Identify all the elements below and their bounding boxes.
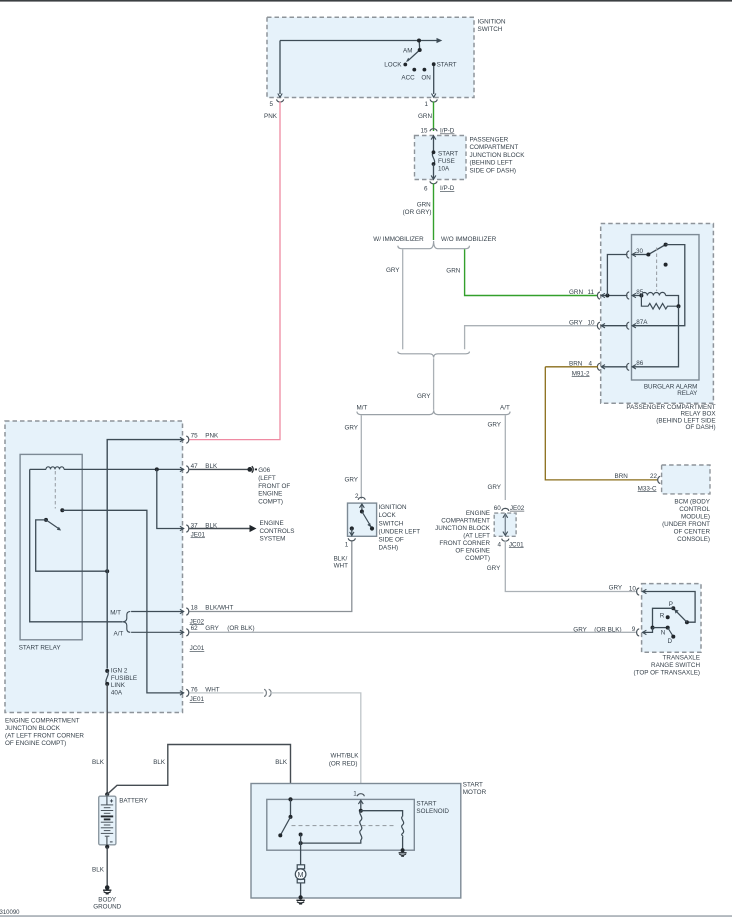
svg-text:SWITCH: SWITCH xyxy=(478,26,503,33)
svg-text:JC01: JC01 xyxy=(509,541,524,548)
svg-text:JUNCTION BLOCK: JUNCTION BLOCK xyxy=(5,725,61,732)
relay coil xyxy=(641,292,665,295)
pin 86 arrow xyxy=(632,365,636,369)
pin 10 arrow inside xyxy=(643,589,647,593)
wire pin11 to relay pin 85 xyxy=(602,295,628,297)
node battery feed junction xyxy=(105,569,109,573)
wire pull-in coil bottom to motor line xyxy=(301,840,361,843)
svg-text:10: 10 xyxy=(629,586,637,593)
engine compartment junction block dashed box xyxy=(5,421,183,713)
wire P contact to pin 9 junction xyxy=(653,608,674,627)
split brace xyxy=(357,410,510,414)
pin 86 connector arc xyxy=(627,363,630,370)
svg-text:(OR GRY): (OR GRY) xyxy=(403,209,432,216)
svg-text:M91-2: M91-2 xyxy=(572,370,590,377)
wire through junction block xyxy=(504,515,506,536)
svg-text:310090: 310090 xyxy=(0,910,20,916)
svg-text:BRN: BRN xyxy=(615,473,629,480)
node AM xyxy=(418,48,422,52)
wire pin 10 to moving contact xyxy=(643,592,695,623)
svg-text:START: START xyxy=(416,801,436,808)
wire fuse internal bottom xyxy=(433,164,435,179)
svg-text:CONTROL: CONTROL xyxy=(679,506,710,513)
svg-text:ENGINE: ENGINE xyxy=(260,520,284,527)
wire 76 WHT to inline connector xyxy=(189,692,263,694)
wire bottom contact to pin 1 xyxy=(351,529,353,536)
ignition switch box xyxy=(267,17,474,97)
burglar alarm relay inner box xyxy=(632,235,700,380)
node battery input on solenoid box edge xyxy=(288,797,292,801)
svg-text:W/ IMMOBILIZER: W/ IMMOBILIZER xyxy=(373,236,424,243)
wire hold coil feed xyxy=(361,811,403,817)
motor circle xyxy=(295,869,306,880)
wire hold coil to ground xyxy=(402,837,404,850)
svg-text:START: START xyxy=(463,782,483,789)
svg-text:CONSOLE): CONSOLE) xyxy=(677,536,710,543)
svg-text:BLK: BLK xyxy=(92,759,105,766)
pin 76 arrow xyxy=(180,691,184,695)
pin 1 arrow inside xyxy=(358,800,363,804)
node pull-in junction xyxy=(299,841,303,845)
svg-text:GRY: GRY xyxy=(569,320,583,327)
svg-text:CONTROLS: CONTROLS xyxy=(260,528,295,535)
svg-text:GRY: GRY xyxy=(344,424,358,431)
svg-text:TRANSAXLE: TRANSAXLE xyxy=(663,655,700,662)
wire pivot to battery feed xyxy=(36,520,108,571)
wire PNK ignition pin5 to junction block pin 75 xyxy=(189,102,280,440)
pin 85 connector arc xyxy=(627,292,630,299)
svg-text:BLK/WHT: BLK/WHT xyxy=(205,604,233,611)
pin 1 arrow xyxy=(432,94,436,98)
svg-text:SIDE OF: SIDE OF xyxy=(379,537,404,544)
wire pin4 to relay pin 86 xyxy=(602,366,628,368)
wire pin 75 to battery feed vertical xyxy=(107,440,184,669)
pin 76 connector arc xyxy=(186,689,189,696)
svg-text:COMPARTMENT: COMPARTMENT xyxy=(441,517,490,524)
svg-text:PNK: PNK xyxy=(264,113,278,120)
pin 1 arrow xyxy=(350,532,354,536)
wire BLK/WHT pin1 down to pin 18 xyxy=(189,542,351,612)
arrow switch arm at LOCK xyxy=(406,58,410,63)
inline connector xyxy=(264,689,271,696)
pin 1 connector arc xyxy=(348,538,355,541)
battery bottom terminal stub xyxy=(106,836,108,847)
svg-text:FRONT OF: FRONT OF xyxy=(258,483,290,490)
pin 11 connector arc at relay box edge xyxy=(597,292,600,299)
wire GRY merged column xyxy=(433,358,435,410)
pin 6 arrow out of box xyxy=(431,175,436,179)
svg-text:OF ENGINE: OF ENGINE xyxy=(455,547,490,554)
pin 18 arrow xyxy=(180,609,184,613)
svg-text:OF ENGINE COMPT): OF ENGINE COMPT) xyxy=(5,740,66,747)
start solenoid box xyxy=(267,799,415,850)
svg-text:A/T: A/T xyxy=(500,404,510,411)
svg-text:COMPARTMENT: COMPARTMENT xyxy=(470,144,519,151)
wire GRY pin4 down to transaxle pin 10 xyxy=(505,541,636,592)
wire GRY w/immobilizer branch xyxy=(402,249,404,349)
node START xyxy=(432,62,436,66)
node moving contact xyxy=(685,620,689,624)
wire AM pivot stem xyxy=(418,41,421,51)
svg-text:BLK: BLK xyxy=(92,866,105,873)
svg-text:JC01: JC01 xyxy=(190,645,205,652)
small junction block dashed box xyxy=(494,513,516,536)
pin 75 arrow xyxy=(180,437,184,441)
wire motor to ground xyxy=(300,883,302,898)
pin 6 connector arc xyxy=(430,181,437,184)
wire junction to pin 9 xyxy=(643,628,653,633)
svg-text:GRN: GRN xyxy=(569,289,583,296)
wire GRY from 87A xyxy=(465,326,598,350)
svg-text:(UNDER LEFT: (UNDER LEFT xyxy=(379,528,421,535)
svg-text:DASH): DASH) xyxy=(379,545,399,552)
relay inner left vertical xyxy=(30,469,123,621)
svg-text:FUSE: FUSE xyxy=(438,158,455,165)
wire motor line xyxy=(300,835,302,865)
pin 4 connector arc xyxy=(502,539,509,542)
pin 10 connector arc xyxy=(637,588,640,595)
svg-text:87A: 87A xyxy=(636,319,648,326)
svg-text:PNK: PNK xyxy=(205,432,219,439)
svg-text:AM: AM xyxy=(403,48,412,55)
svg-text:5: 5 xyxy=(270,101,274,108)
G06 ground symbol xyxy=(247,467,252,472)
arm arrowhead xyxy=(367,523,371,527)
node battery negative junction xyxy=(105,845,109,849)
wire 47 BLK to G06 xyxy=(189,468,250,470)
svg-text:SWITCH: SWITCH xyxy=(379,520,404,527)
svg-text:A/T: A/T xyxy=(114,630,124,637)
svg-text:START: START xyxy=(438,151,458,158)
svg-text:(TOP OF TRANSAXLE): (TOP OF TRANSAXLE) xyxy=(634,670,700,677)
wire upper contact to pin 76 xyxy=(62,510,183,693)
wire fuse internal top xyxy=(433,137,435,153)
svg-text:75: 75 xyxy=(191,432,199,439)
svg-text:10A: 10A xyxy=(438,166,450,173)
relay coil dashed link xyxy=(656,248,658,292)
arm N to D xyxy=(668,628,674,637)
svg-text:JUNCTION BLOCK: JUNCTION BLOCK xyxy=(470,152,526,159)
fuse junction block dashed box xyxy=(415,136,467,180)
svg-text:G06: G06 xyxy=(258,467,270,474)
svg-text:D: D xyxy=(668,638,673,645)
node D contact xyxy=(671,635,675,639)
svg-text:COMPT): COMPT) xyxy=(258,499,283,506)
wire switch arm AM to LOCK xyxy=(407,50,419,61)
pin 9 connector arc xyxy=(637,629,640,636)
solenoid ground symbol xyxy=(399,852,407,854)
wire 62 GRY to transaxle pin 9 xyxy=(189,631,636,633)
svg-text:GRY: GRY xyxy=(344,477,358,484)
wire BLK battery to start motor xyxy=(107,745,290,800)
node relay upper contact xyxy=(60,508,64,512)
svg-text:ENGINE COMPARTMENT: ENGINE COMPARTMENT xyxy=(5,718,80,725)
svg-text:(LEFT: (LEFT xyxy=(258,475,276,482)
pin 1 connector arc xyxy=(430,99,437,102)
svg-text:JE02: JE02 xyxy=(510,505,525,512)
svg-text:1: 1 xyxy=(353,790,357,797)
node coil-resistor junction xyxy=(639,294,643,298)
BCM pin 22 connector arc xyxy=(658,476,661,483)
svg-text:ON: ON xyxy=(421,75,431,82)
svg-text:60: 60 xyxy=(494,505,502,512)
ignition lock switch box xyxy=(348,503,377,536)
svg-text:RELAY: RELAY xyxy=(677,390,698,397)
wire GRY M/T branch xyxy=(360,415,362,499)
battery top terminal stub xyxy=(106,794,108,805)
wire pin 1 to coils junction xyxy=(360,801,362,811)
svg-text:ACC: ACC xyxy=(401,75,415,82)
node switch contact xyxy=(289,815,293,819)
wire pin 85 to coil xyxy=(633,295,642,297)
svg-text:BLK/: BLK/ xyxy=(334,556,348,563)
svg-text:LINK: LINK xyxy=(111,682,126,689)
start relay box xyxy=(20,454,82,639)
pin 62 arrow xyxy=(180,630,184,634)
pin 60 arrow inside xyxy=(503,514,508,518)
node arm pivot xyxy=(646,253,650,257)
pin 87A connector arc xyxy=(627,322,630,329)
node ACC xyxy=(412,68,416,72)
svg-text:COMPT): COMPT) xyxy=(465,555,490,562)
solenoid ground node xyxy=(401,848,405,852)
pin 4 connector arc at relay box edge xyxy=(597,363,600,370)
svg-text:MODULE): MODULE) xyxy=(681,513,710,520)
svg-text:GRN: GRN xyxy=(417,201,431,208)
svg-text:I/P-D: I/P-D xyxy=(440,128,455,135)
pin 4 arrow xyxy=(601,365,605,369)
pin 15 connector arc xyxy=(430,129,437,132)
wire battery negative to body ground xyxy=(106,847,108,886)
pin 5 connector arc xyxy=(277,99,284,102)
hold-in coil xyxy=(402,816,404,837)
wire fusible link to battery xyxy=(106,684,108,794)
node resistor-coil right junction xyxy=(677,304,681,308)
svg-text:M/T: M/T xyxy=(357,404,368,411)
wire pin10 to relay pin 87A xyxy=(602,325,628,327)
svg-text:10: 10 xyxy=(588,320,596,327)
svg-text:ENGINE: ENGINE xyxy=(466,510,490,517)
svg-text:4: 4 xyxy=(498,541,502,548)
start motor box xyxy=(251,784,461,899)
node coils junction xyxy=(359,809,363,813)
svg-text:22: 22 xyxy=(650,473,658,480)
svg-text:11: 11 xyxy=(588,289,595,296)
svg-text:BLK: BLK xyxy=(153,759,166,766)
wire START contact to pin 1 xyxy=(433,64,435,94)
node on feed wire xyxy=(417,39,421,43)
svg-text:GRY: GRY xyxy=(386,267,400,274)
node battery positive junction xyxy=(105,792,109,796)
relay arm xyxy=(46,520,60,530)
wire WHT/BLK to start solenoid xyxy=(270,693,361,793)
svg-text:IGNITION: IGNITION xyxy=(478,18,506,25)
node upper contact 87 xyxy=(664,243,668,247)
svg-text:JE01: JE01 xyxy=(191,531,206,538)
motor ground node xyxy=(299,895,303,899)
arrow feed wire end xyxy=(437,38,443,43)
body ground symbol xyxy=(105,885,110,890)
svg-text:M: M xyxy=(298,872,304,879)
fusible link IGN 2 xyxy=(105,669,109,673)
relay mechanical dashed link xyxy=(54,471,56,509)
wire junction down to pin 37 xyxy=(157,469,184,528)
BCM dashed box xyxy=(662,465,710,494)
pull-in coil xyxy=(360,811,362,840)
svg-text:IGN 2: IGN 2 xyxy=(111,667,128,674)
wire relay pin 30 external xyxy=(607,255,627,296)
wire M/T to pin 18 xyxy=(131,611,184,613)
bottom page border line xyxy=(0,915,732,917)
motor terminal bottom xyxy=(297,879,304,883)
svg-text:18: 18 xyxy=(191,604,199,611)
pin 2 arrow inside xyxy=(360,504,365,508)
wire GRN ignition pin1 to fuse pin 15 xyxy=(433,102,435,132)
pin 9 arrow inside xyxy=(643,630,647,634)
wire GRN w/o immobilizer branch xyxy=(465,249,598,295)
svg-text:GRN: GRN xyxy=(418,113,432,120)
merge brace xyxy=(398,352,470,358)
wire coil to right leg xyxy=(666,296,679,307)
node arm end xyxy=(370,526,374,530)
svg-text:ENGINE: ENGINE xyxy=(258,491,282,498)
svg-text:(AT LEFT FRONT CORNER: (AT LEFT FRONT CORNER xyxy=(5,733,84,740)
arm arrowhead xyxy=(674,609,678,613)
wire BRN relay pin4 to BCM xyxy=(545,367,658,480)
node switch arm end xyxy=(278,833,282,837)
svg-text:OF DASH): OF DASH) xyxy=(686,424,716,431)
pin 30 arrow xyxy=(632,252,636,256)
node pin47/37 junction xyxy=(155,467,159,471)
svg-text:86: 86 xyxy=(636,360,644,367)
solenoid mechanical dashed link xyxy=(292,825,396,827)
node pin9 junction xyxy=(651,626,655,630)
pin 15 arrow into box xyxy=(431,136,436,140)
svg-text:MOTOR: MOTOR xyxy=(463,789,487,796)
node ON xyxy=(423,68,427,72)
pin 4 arrow inside xyxy=(503,532,508,536)
svg-text:BCM (BODY: BCM (BODY xyxy=(674,498,710,505)
wire GRY A/T branch xyxy=(504,415,506,500)
svg-text:GRY: GRY xyxy=(609,585,623,592)
svg-text:P: P xyxy=(669,601,673,608)
svg-text:PASSENGER: PASSENGER xyxy=(470,137,509,144)
pin 62 connector arc xyxy=(186,629,189,636)
svg-text:RANGE SWITCH: RANGE SWITCH xyxy=(651,662,700,669)
pin 18 connector arc xyxy=(186,608,189,615)
svg-text:(AT LEFT: (AT LEFT xyxy=(463,532,490,539)
pin 47 connector arc xyxy=(186,466,189,473)
svg-text:BLK: BLK xyxy=(275,759,288,766)
svg-text:R: R xyxy=(660,613,665,620)
wire junction down to pin 86 xyxy=(633,306,679,367)
relay arm arrowhead xyxy=(57,527,61,531)
node lower contact 87a unused xyxy=(664,263,668,267)
svg-text:(UNDER FRONT: (UNDER FRONT xyxy=(662,521,710,528)
passenger compartment relay box dashed xyxy=(601,224,714,404)
wire junction to N contact xyxy=(653,627,668,629)
svg-text:OF CENTER: OF CENTER xyxy=(674,528,711,535)
svg-text:LOCK: LOCK xyxy=(384,61,402,68)
svg-text:LOCK: LOCK xyxy=(379,512,397,519)
wire A/T to pin 62 xyxy=(131,631,184,633)
svg-text:WHT: WHT xyxy=(334,563,348,570)
battery - mark xyxy=(110,841,113,843)
svg-text:(OR BLK): (OR BLK) xyxy=(227,625,254,632)
svg-text:30: 30 xyxy=(636,248,644,255)
svg-text:1: 1 xyxy=(425,101,429,108)
relay coil xyxy=(46,467,64,470)
wire GRN fuse pin6 down to immobilizer split xyxy=(433,184,435,241)
svg-text:GRY: GRY xyxy=(205,625,219,632)
svg-text:M/T: M/T xyxy=(110,610,121,617)
arrow engine controls system xyxy=(250,525,257,532)
node N contact xyxy=(666,626,670,630)
svg-text:62: 62 xyxy=(191,625,199,632)
relay switch arm 30 to upper contact xyxy=(647,244,668,256)
svg-text:START: START xyxy=(437,61,457,68)
pin 10 connector arc at relay box edge xyxy=(597,322,600,329)
node relay arm pivot xyxy=(44,518,48,522)
battery + mark xyxy=(110,799,113,802)
svg-text:N: N xyxy=(661,629,666,636)
svg-text:W/O IMMOBILIZER: W/O IMMOBILIZER xyxy=(441,236,497,243)
node LOCK xyxy=(403,63,407,67)
svg-text:1: 1 xyxy=(345,541,349,548)
svg-text:JE01: JE01 xyxy=(190,696,205,703)
svg-text:START RELAY: START RELAY xyxy=(19,644,62,651)
svg-text:GRY: GRY xyxy=(417,393,431,400)
pin 37 arrow xyxy=(180,526,184,530)
pin 5 arrow xyxy=(278,94,282,98)
pin 60 connector arc xyxy=(502,508,509,511)
pin 2 connector arc xyxy=(358,497,365,500)
wire 37 BLK to engine controls xyxy=(189,528,249,530)
wire pin 30 to contact xyxy=(633,254,649,256)
svg-text:GRN: GRN xyxy=(446,268,460,275)
wire contact stem to pin2 xyxy=(361,505,363,512)
pin 75 connector arc xyxy=(186,436,189,443)
svg-text:M33-C: M33-C xyxy=(638,485,657,492)
node bottom-left contact xyxy=(350,526,354,530)
pin 10 arrow xyxy=(601,324,605,328)
svg-text:GRY: GRY xyxy=(487,565,501,572)
switch arm xyxy=(362,512,372,529)
svg-text:FRONT CORNER: FRONT CORNER xyxy=(439,540,490,547)
svg-text:I/P-D: I/P-D xyxy=(440,185,455,192)
motor ground symbol xyxy=(296,899,304,901)
node top contact xyxy=(360,510,364,514)
svg-text:WHT/BLK: WHT/BLK xyxy=(331,753,360,760)
svg-text:SOLENOID: SOLENOID xyxy=(416,808,449,815)
svg-text:BATTERY: BATTERY xyxy=(119,798,148,805)
node R contact xyxy=(666,615,670,619)
pin 11 arrow xyxy=(601,293,605,297)
pin 87A arrow xyxy=(632,324,636,328)
pin 37 connector arc xyxy=(186,525,189,532)
wire ignition switch feed horizontal xyxy=(280,40,437,42)
svg-text:GRY: GRY xyxy=(487,422,501,429)
pin 47 arrow xyxy=(180,467,184,471)
node motor contact xyxy=(299,833,303,837)
pin 30 connector arc xyxy=(627,251,630,258)
pin 85 arrow xyxy=(632,293,636,297)
wire battery input to switch contact xyxy=(290,799,292,817)
top page border line xyxy=(0,0,732,2)
start fuse element xyxy=(432,152,434,164)
split brace xyxy=(398,241,470,249)
solenoid switch arm xyxy=(280,817,290,836)
